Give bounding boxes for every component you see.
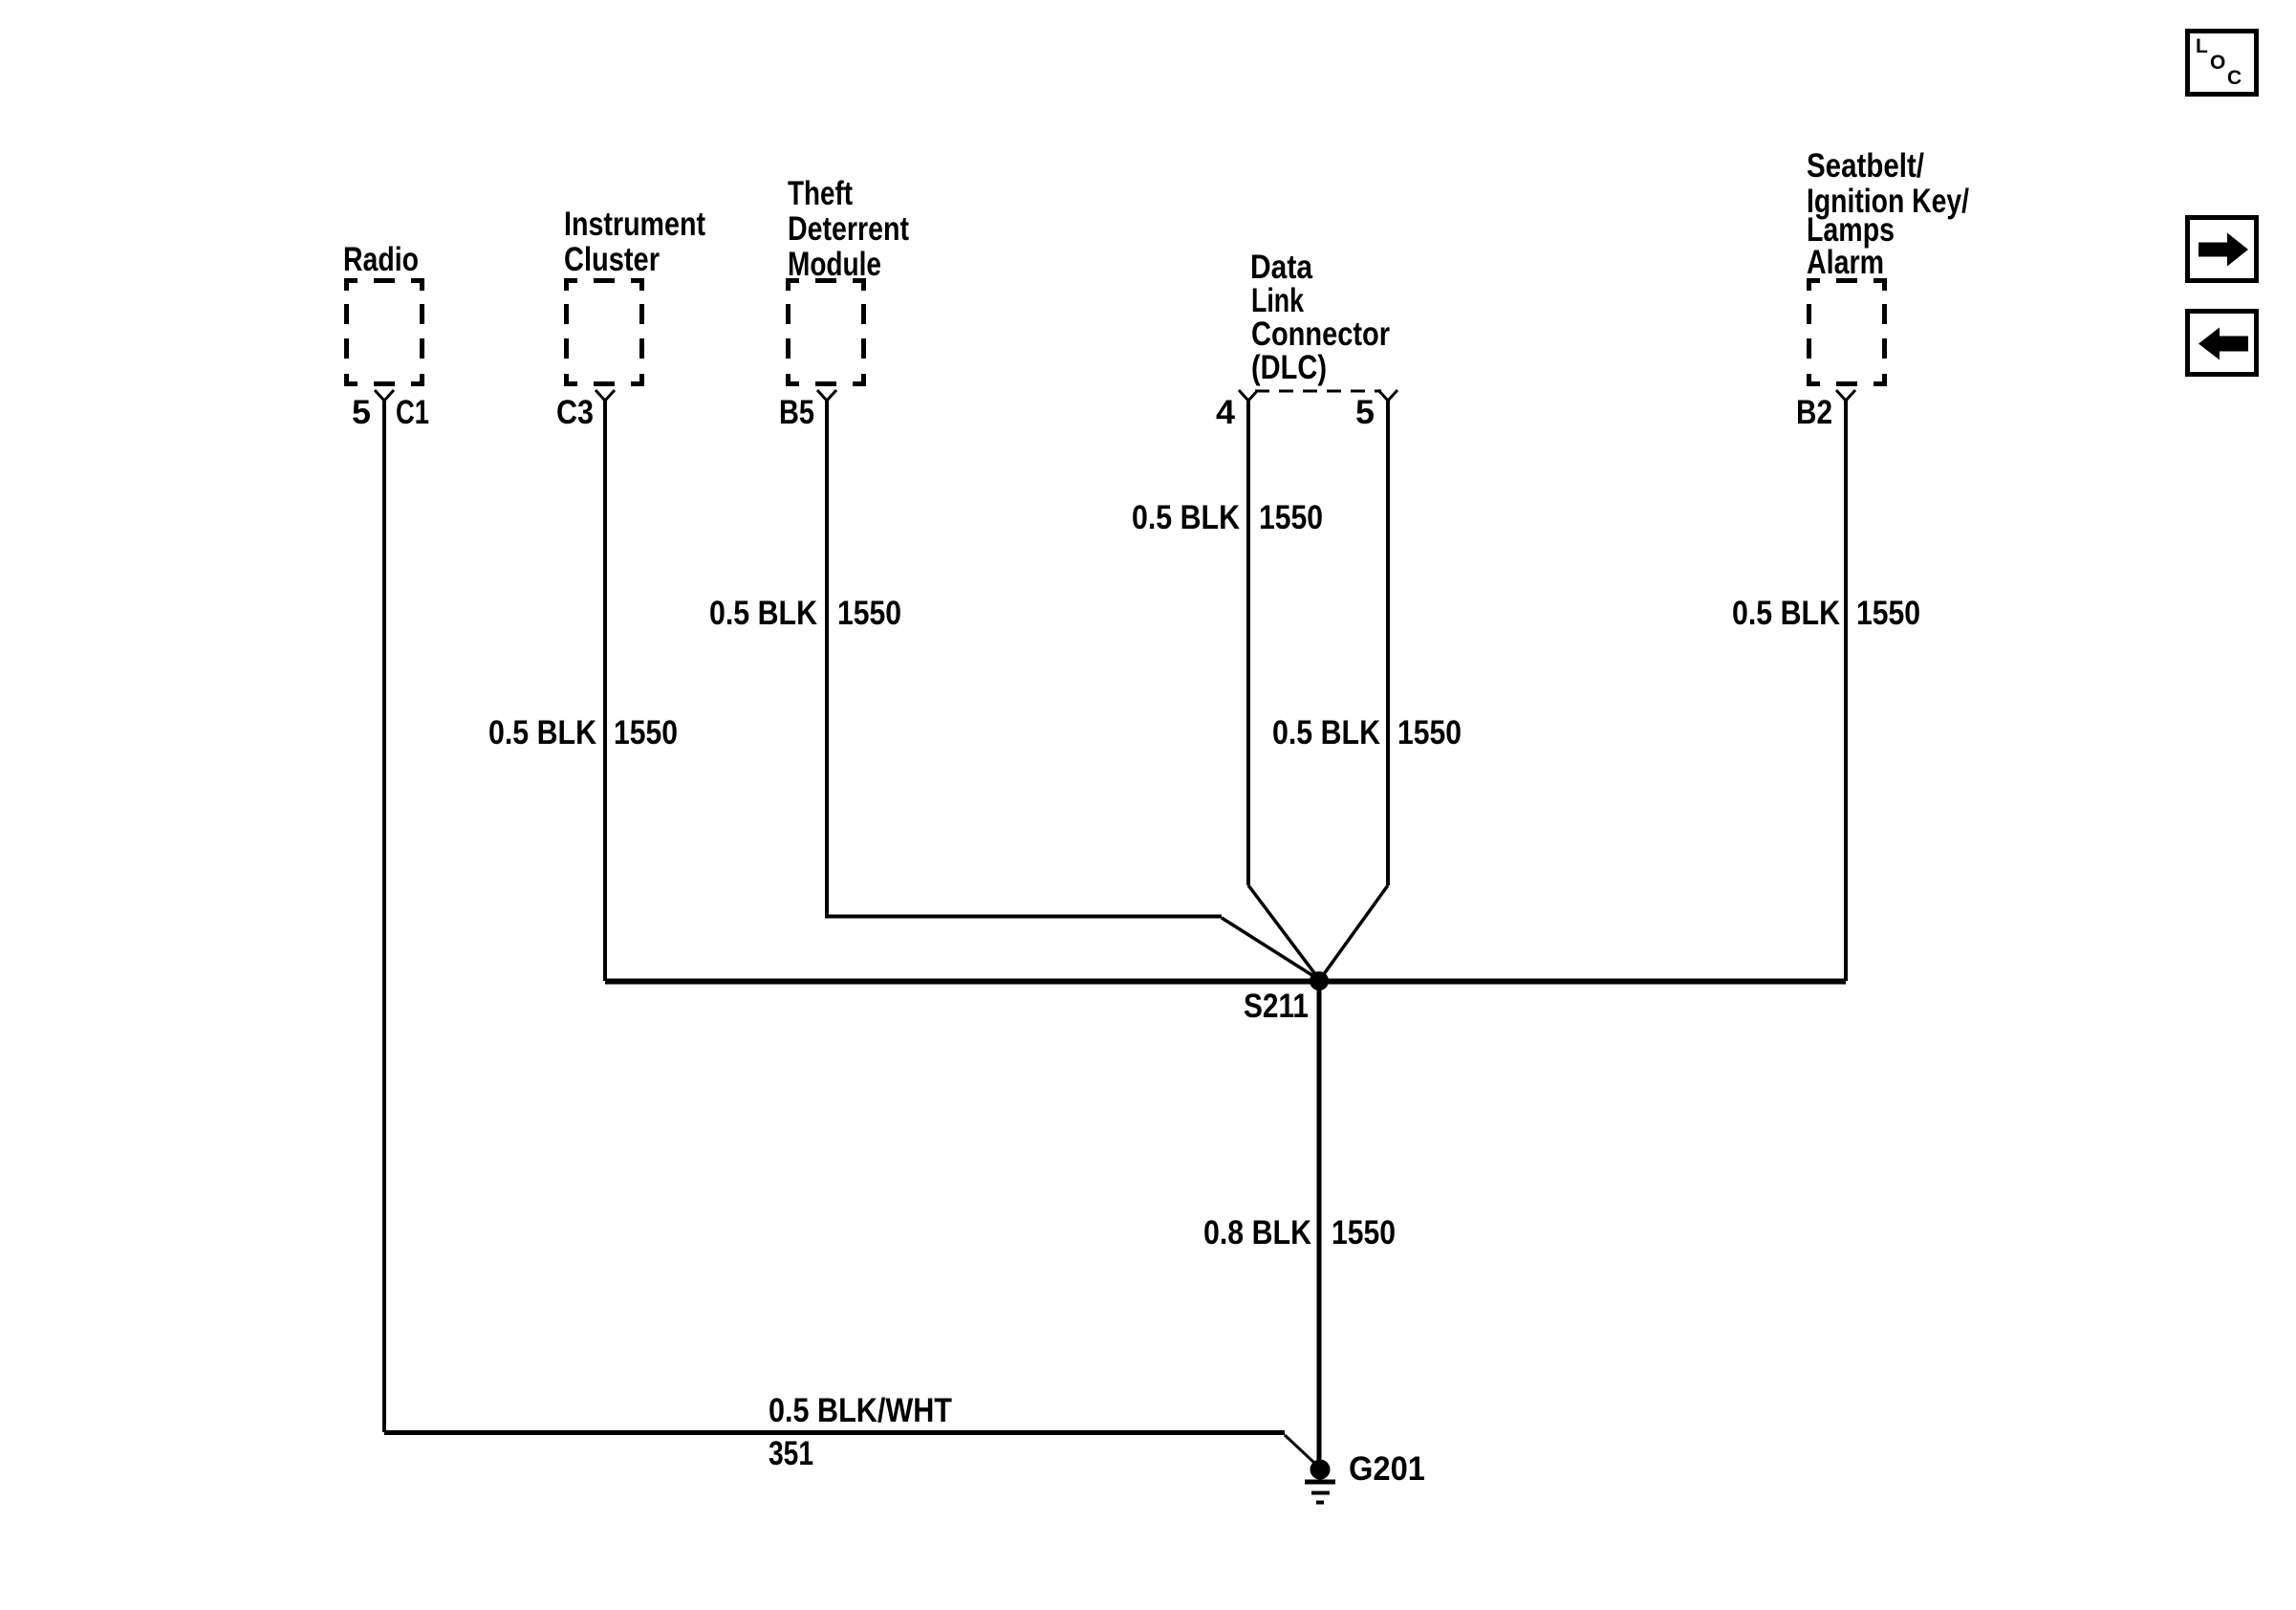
svg-text:C: C: [2227, 67, 2242, 89]
svg-text:B5: B5: [779, 394, 814, 431]
svg-text:0.5 BLK: 0.5 BLK: [1732, 595, 1840, 632]
svg-text:Connector: Connector: [1251, 315, 1390, 353]
svg-text:0.5 BLK: 0.5 BLK: [1272, 714, 1380, 751]
svg-text:0.5 BLK/WHT: 0.5 BLK/WHT: [769, 1392, 952, 1429]
svg-text:Radio: Radio: [343, 241, 419, 278]
svg-text:Deterrent: Deterrent: [788, 210, 909, 248]
svg-text:S211: S211: [1244, 988, 1309, 1025]
ground G201 dot: [1310, 1460, 1331, 1480]
wire DLC pin 4 diagonal into S211: [1248, 885, 1318, 978]
connector box Theft Deterrent Module (dashed): [786, 278, 866, 386]
svg-text:O: O: [2210, 52, 2225, 74]
svg-text:1550: 1550: [837, 595, 901, 632]
svg-text:1550: 1550: [1397, 714, 1462, 751]
svg-text:1550: 1550: [1332, 1214, 1396, 1251]
svg-text:4: 4: [1216, 394, 1236, 431]
svg-text:Theft: Theft: [788, 175, 853, 212]
svg-text:Alarm: Alarm: [1807, 244, 1884, 281]
wire DLC pin 5 diagonal into S211: [1321, 885, 1388, 978]
terminal Y at DLC pin 4: [1239, 390, 1258, 401]
connector box Instrument Cluster (dashed): [564, 278, 644, 386]
terminal Y at Instrument Cluster C3: [596, 390, 615, 401]
svg-text:0.5 BLK: 0.5 BLK: [1132, 499, 1240, 536]
wire DLC pin 4 vertical (0.5 BLK): [1246, 401, 1250, 885]
svg-text:Instrument: Instrument: [564, 206, 705, 243]
terminal Y at DLC pin 5: [1378, 390, 1397, 401]
ground symbol bars: [1305, 1480, 1335, 1485]
svg-text:1550: 1550: [614, 714, 678, 751]
wire ground bus horizontal through S211: [605, 979, 1846, 985]
wire Radio C1-5 vertical (0.5 BLK/WHT): [382, 401, 386, 1432]
svg-text:(DLC): (DLC): [1251, 349, 1327, 386]
wire S211 to G201 vertical (0.8 BLK): [1317, 981, 1322, 1463]
splice S211 dot: [1310, 971, 1329, 990]
svg-text:Data: Data: [1250, 249, 1312, 286]
terminal Y at Seatbelt B2: [1836, 390, 1855, 401]
legend left-arrow box: [2188, 312, 2257, 375]
wire DLC pin 5 vertical (0.5 BLK): [1386, 401, 1390, 885]
svg-text:Module: Module: [788, 246, 881, 283]
svg-text:0.5 BLK: 0.5 BLK: [488, 714, 596, 751]
terminal Y at Radio pin 5 C1: [375, 390, 394, 401]
svg-text:5: 5: [1355, 394, 1375, 431]
DLC dashed connector outline: [1255, 390, 1381, 393]
svg-text:Seatbelt/: Seatbelt/: [1807, 147, 1924, 185]
legend right-arrow box: [2188, 218, 2257, 281]
wire Theft Deterrent Module B5 vertical (0.5 BLK): [825, 401, 829, 915]
svg-text:Link: Link: [1251, 282, 1304, 319]
svg-text:1550: 1550: [1856, 595, 1920, 632]
svg-text:5: 5: [352, 394, 371, 431]
legend right-arrow icon: [2199, 233, 2248, 267]
svg-text:Cluster: Cluster: [564, 241, 660, 278]
svg-text:351: 351: [769, 1435, 813, 1472]
wire Theft Deterrent Module diagonal into S211: [1222, 918, 1318, 979]
svg-text:C1: C1: [396, 394, 429, 431]
terminal Y at Theft Deterrent Module B5: [817, 390, 836, 401]
wire diagonal into ground dot: [1285, 1435, 1314, 1463]
wire Seatbelt B2 vertical (0.5 BLK): [1844, 401, 1848, 981]
svg-text:1550: 1550: [1259, 499, 1323, 536]
svg-text:G201: G201: [1349, 1450, 1425, 1488]
svg-text:0.5 BLK: 0.5 BLK: [709, 595, 817, 632]
wire Theft Deterrent Module horizontal to splice: [825, 915, 1222, 919]
legend left-arrow icon: [2199, 328, 2248, 360]
connector box Radio (dashed): [344, 278, 424, 386]
svg-text:0.8 BLK: 0.8 BLK: [1203, 1214, 1311, 1251]
svg-text:C3: C3: [556, 394, 594, 431]
svg-text:B2: B2: [1796, 394, 1832, 431]
svg-text:L: L: [2196, 35, 2208, 57]
connector box Seatbelt/Ignition Key/Lamps Alarm (dashed): [1807, 278, 1887, 386]
wire Radio horizontal to ground (0.5 BLK/WHT 351): [384, 1430, 1285, 1435]
wire Instrument Cluster C3 vertical (0.5 BLK): [603, 401, 607, 981]
legend LOC box: [2188, 32, 2257, 95]
